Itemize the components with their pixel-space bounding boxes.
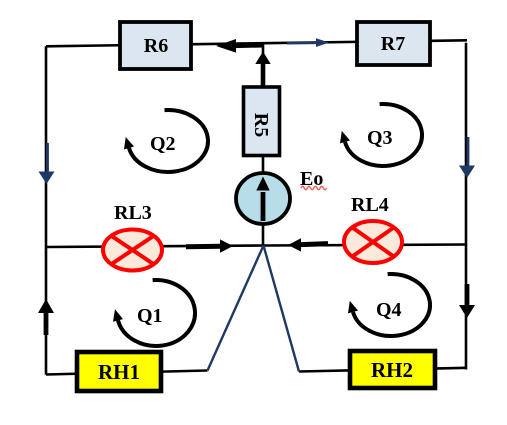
resistor RH2 xyxy=(350,351,435,388)
wire: left vertical branch xyxy=(45,46,48,375)
wire: bottom-right branch through RH2 xyxy=(299,368,467,372)
svg-text:RL3: RL3 xyxy=(114,202,152,224)
label Eo with red spellcheck squiggle xyxy=(300,168,327,190)
svg-text:RH2: RH2 xyxy=(371,358,413,382)
wire: blue return lead from node to RH1 xyxy=(208,246,264,371)
source Eo circle xyxy=(236,173,290,224)
wire: center vertical branch (R5 / Eo) xyxy=(262,44,265,246)
resistor R5 (vertical, rotated label) xyxy=(244,87,280,156)
current arrow: top-right navy pointing right xyxy=(287,38,329,47)
lamp RL4 xyxy=(344,221,402,263)
resistor R6 xyxy=(120,22,191,69)
svg-text:Q2: Q2 xyxy=(150,133,176,155)
current arrow: right branch navy pointing down xyxy=(459,137,475,178)
lamp RL3 xyxy=(103,230,162,271)
current arrow: left branch black pointing up xyxy=(38,299,54,335)
mesh current loop Q4 xyxy=(348,274,430,336)
svg-text:R7: R7 xyxy=(381,33,405,55)
svg-text:Q4: Q4 xyxy=(376,299,402,321)
wire: bottom-left branch through RH1 xyxy=(46,371,208,375)
current arrow: top-left pointing left xyxy=(216,39,264,53)
svg-text:RH1: RH1 xyxy=(98,360,140,384)
mesh current loop Q1 xyxy=(113,280,195,346)
current arrow: right branch black pointing down xyxy=(459,284,475,318)
svg-text:R6: R6 xyxy=(144,35,168,57)
svg-text:RL4: RL4 xyxy=(351,194,389,216)
wire: blue return lead from node to RH2 xyxy=(264,246,300,372)
wire: middle-right branch to center node xyxy=(264,245,467,246)
resistor RH1 xyxy=(77,352,161,391)
svg-text:R5: R5 xyxy=(250,113,272,137)
svg-text:Q1: Q1 xyxy=(137,305,163,327)
wire: middle-left branch to center node xyxy=(46,246,264,248)
current arrow: middle-right pointing left toward node xyxy=(288,238,328,251)
current arrow: left branch navy pointing down xyxy=(39,143,55,184)
svg-text:Q3: Q3 xyxy=(367,127,393,149)
wire: right vertical branch xyxy=(465,43,468,370)
resistor R7 xyxy=(357,22,430,65)
current arrow: up arrow into top node above R5 xyxy=(255,52,270,89)
current arrow: middle-left pointing right toward node xyxy=(186,239,233,252)
mesh current loop Q2 xyxy=(124,110,208,172)
mesh current loop Q3 xyxy=(340,104,422,166)
wire: top horizontal branch xyxy=(46,40,467,46)
